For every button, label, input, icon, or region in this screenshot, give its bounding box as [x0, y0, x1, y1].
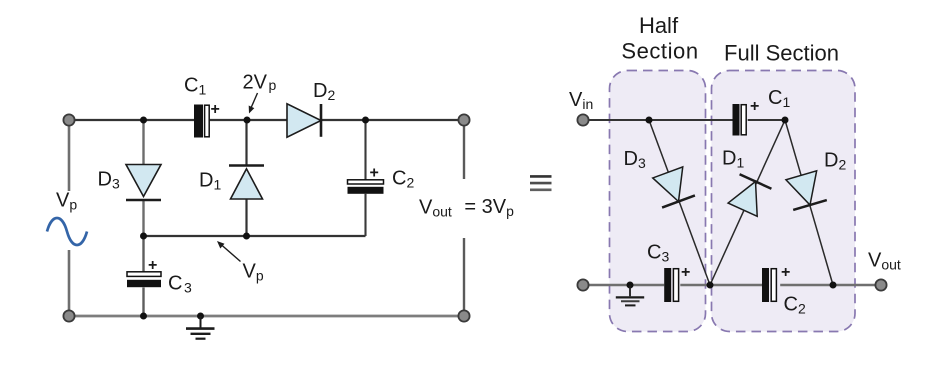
node D3 bottom junction [140, 233, 147, 240]
wire Vin rail [589, 119, 733, 121]
svg-text:Half: Half [639, 13, 679, 38]
node 2Vp annotation [243, 72, 277, 114]
wire left rail upper [68, 120, 71, 191]
svg-text:Full Section: Full Section [724, 41, 839, 66]
wire C3 branch top [142, 236, 144, 272]
svg-text:+: + [750, 98, 759, 115]
diode D3 [126, 165, 161, 201]
diode D1 (diagonal) [727, 174, 772, 217]
wire C2 branch bottom [364, 194, 366, 236]
wire bottom rail middle [680, 284, 762, 286]
terminal top-right [458, 114, 469, 125]
capacitor C1 [194, 105, 209, 138]
equivalence symbol [530, 176, 552, 189]
node D2 bottom junction [830, 282, 837, 289]
terminal Vout [875, 279, 886, 290]
capacitor C2 [348, 180, 384, 194]
wire bottom rail left [589, 284, 665, 286]
wire middle rail [144, 235, 366, 237]
capacitor C3 [127, 272, 161, 287]
svg-text:+: + [681, 264, 690, 281]
node C2 top junction [362, 117, 369, 124]
wire D2 diagonal [785, 120, 833, 285]
node ground junction [627, 282, 634, 289]
diode D2 [287, 104, 321, 137]
wire right rail lower [463, 238, 465, 316]
wire left rail lower [68, 250, 71, 316]
terminal bottom-right [458, 310, 469, 321]
svg-text:+: + [370, 165, 379, 182]
wire C1 right to node [748, 119, 785, 121]
node D1 bottom junction [243, 233, 250, 240]
terminal Vin [577, 114, 588, 125]
ground [616, 285, 644, 305]
svg-text:+: + [148, 257, 157, 274]
wire top rail segment right [321, 119, 464, 121]
half section box [610, 71, 706, 332]
node C3 bottom junction [140, 313, 147, 320]
terminal bottom-left [577, 279, 588, 290]
full section box [712, 71, 856, 332]
svg-text:+: + [781, 264, 790, 281]
diode D2 (diagonal) [785, 170, 827, 210]
wire top rail segment left [69, 119, 194, 121]
node Vp annotation [217, 241, 264, 284]
node D3 top junction [140, 117, 147, 124]
wire bottom rail right [780, 284, 876, 286]
source sine wave [47, 218, 87, 245]
wire D3 branch bottom [142, 200, 144, 236]
wire C2 branch top [364, 120, 366, 180]
terminal bottom-left [63, 310, 74, 321]
wire D1 branch bottom [245, 199, 247, 236]
capacitor C1 (series) [733, 104, 747, 136]
wire D1 diagonal [710, 120, 785, 285]
wire C3 branch bottom [142, 288, 144, 317]
terminal top-left [63, 114, 74, 125]
diode D1 [229, 166, 264, 200]
svg-text:Section: Section [621, 39, 698, 64]
wire D3 diagonal [649, 120, 710, 285]
node center bottom junction [707, 282, 714, 289]
node 2Vp junction [244, 117, 251, 124]
wire D3 branch top [142, 120, 144, 165]
wire D1 branch top [245, 120, 247, 166]
node top junction [646, 117, 653, 124]
svg-text:+: + [211, 101, 220, 118]
node ground junction [197, 313, 204, 320]
ground [186, 316, 215, 339]
diode D3 (diagonal) [651, 166, 695, 207]
node C1 right junction [782, 117, 789, 124]
capacitor C2 (series) [762, 268, 776, 302]
capacitor C3 (series) [664, 268, 678, 302]
wire right rail upper [463, 120, 465, 179]
wire top rail segment middle [210, 119, 287, 121]
wire bottom rail [69, 315, 464, 318]
